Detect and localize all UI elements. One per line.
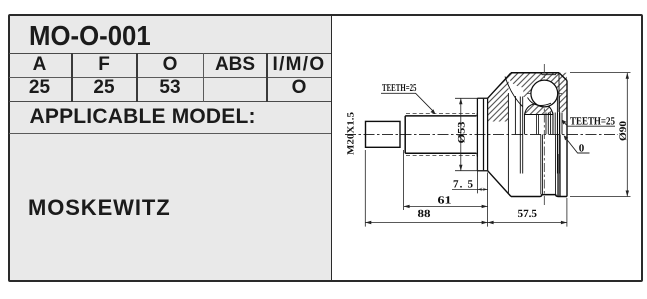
model name bbox=[28, 195, 171, 221]
inner race bore spline comb bbox=[546, 113, 562, 135]
bell cone bottom bbox=[488, 171, 511, 197]
spline shaft section bbox=[405, 116, 476, 153]
rim chamfer top right bbox=[559, 73, 567, 81]
vertical center line of ball bbox=[543, 64, 545, 205]
hatched outer race section (top half) bbox=[488, 73, 567, 122]
cage right bbox=[557, 97, 559, 174]
bell cone top bbox=[488, 73, 511, 99]
dimension 61 bbox=[404, 205, 488, 207]
rim inner face line bbox=[558, 73, 560, 197]
svg-text:61: 61 bbox=[438, 194, 452, 206]
header row bbox=[8, 54, 71, 76]
applicable model row bbox=[30, 105, 256, 129]
dimension Ø53 bbox=[455, 98, 488, 170]
left panel gray background bbox=[10, 16, 332, 280]
spline end fillet to shoulder bbox=[476, 113, 477, 156]
top boot groove line bbox=[540, 73, 558, 75]
inner race dome hatched bbox=[525, 103, 554, 114]
svg-text:Ø53: Ø53 bbox=[457, 122, 468, 144]
dimension 7.5 bbox=[452, 188, 488, 190]
bell face plane bbox=[487, 98, 489, 170]
svg-text:M20X1.5: M20X1.5 bbox=[347, 112, 357, 155]
cavity mouth arc (section top) bbox=[505, 77, 523, 107]
svg-text:57.5: 57.5 bbox=[518, 208, 538, 220]
lower half external view lines bbox=[541, 135, 560, 197]
data row bbox=[8, 77, 71, 99]
bell outer top edge bbox=[511, 72, 559, 74]
shoulder disc (Ø53 face) bbox=[477, 98, 487, 170]
spline tip dashed lines bbox=[406, 114, 475, 156]
ball bbox=[531, 80, 558, 107]
dimension 57.5 bbox=[488, 222, 567, 224]
divider between table and drawing bbox=[331, 16, 333, 280]
second ball arc bbox=[528, 98, 552, 106]
bell outer bottom edge with boot groove bbox=[511, 195, 567, 197]
rim right edge bbox=[566, 81, 568, 197]
dimension Ø90 bbox=[570, 73, 631, 197]
cage left bbox=[520, 97, 522, 174]
svg-text:88: 88 bbox=[418, 208, 432, 220]
svg-text:7. 5: 7. 5 bbox=[453, 178, 474, 190]
svg-text:TEETH=25: TEETH=25 bbox=[382, 83, 417, 94]
svg-text:TEETH=25: TEETH=25 bbox=[570, 115, 615, 127]
extension lines for bottom dims bbox=[365, 150, 567, 227]
cavity mouth rim lines bbox=[508, 93, 515, 193]
horizontal center line bbox=[345, 134, 618, 136]
svg-text:Ø90: Ø90 bbox=[618, 121, 629, 141]
table grid lines bbox=[9, 53, 331, 54]
inner race block top bbox=[525, 115, 554, 135]
ball horizontal center line bbox=[527, 93, 562, 95]
technical drawing SVG bbox=[331, 14, 643, 281]
dimension 88 bbox=[365, 222, 487, 224]
title MO-O-001 bbox=[29, 20, 151, 52]
threaded stub M20 bbox=[366, 121, 401, 147]
